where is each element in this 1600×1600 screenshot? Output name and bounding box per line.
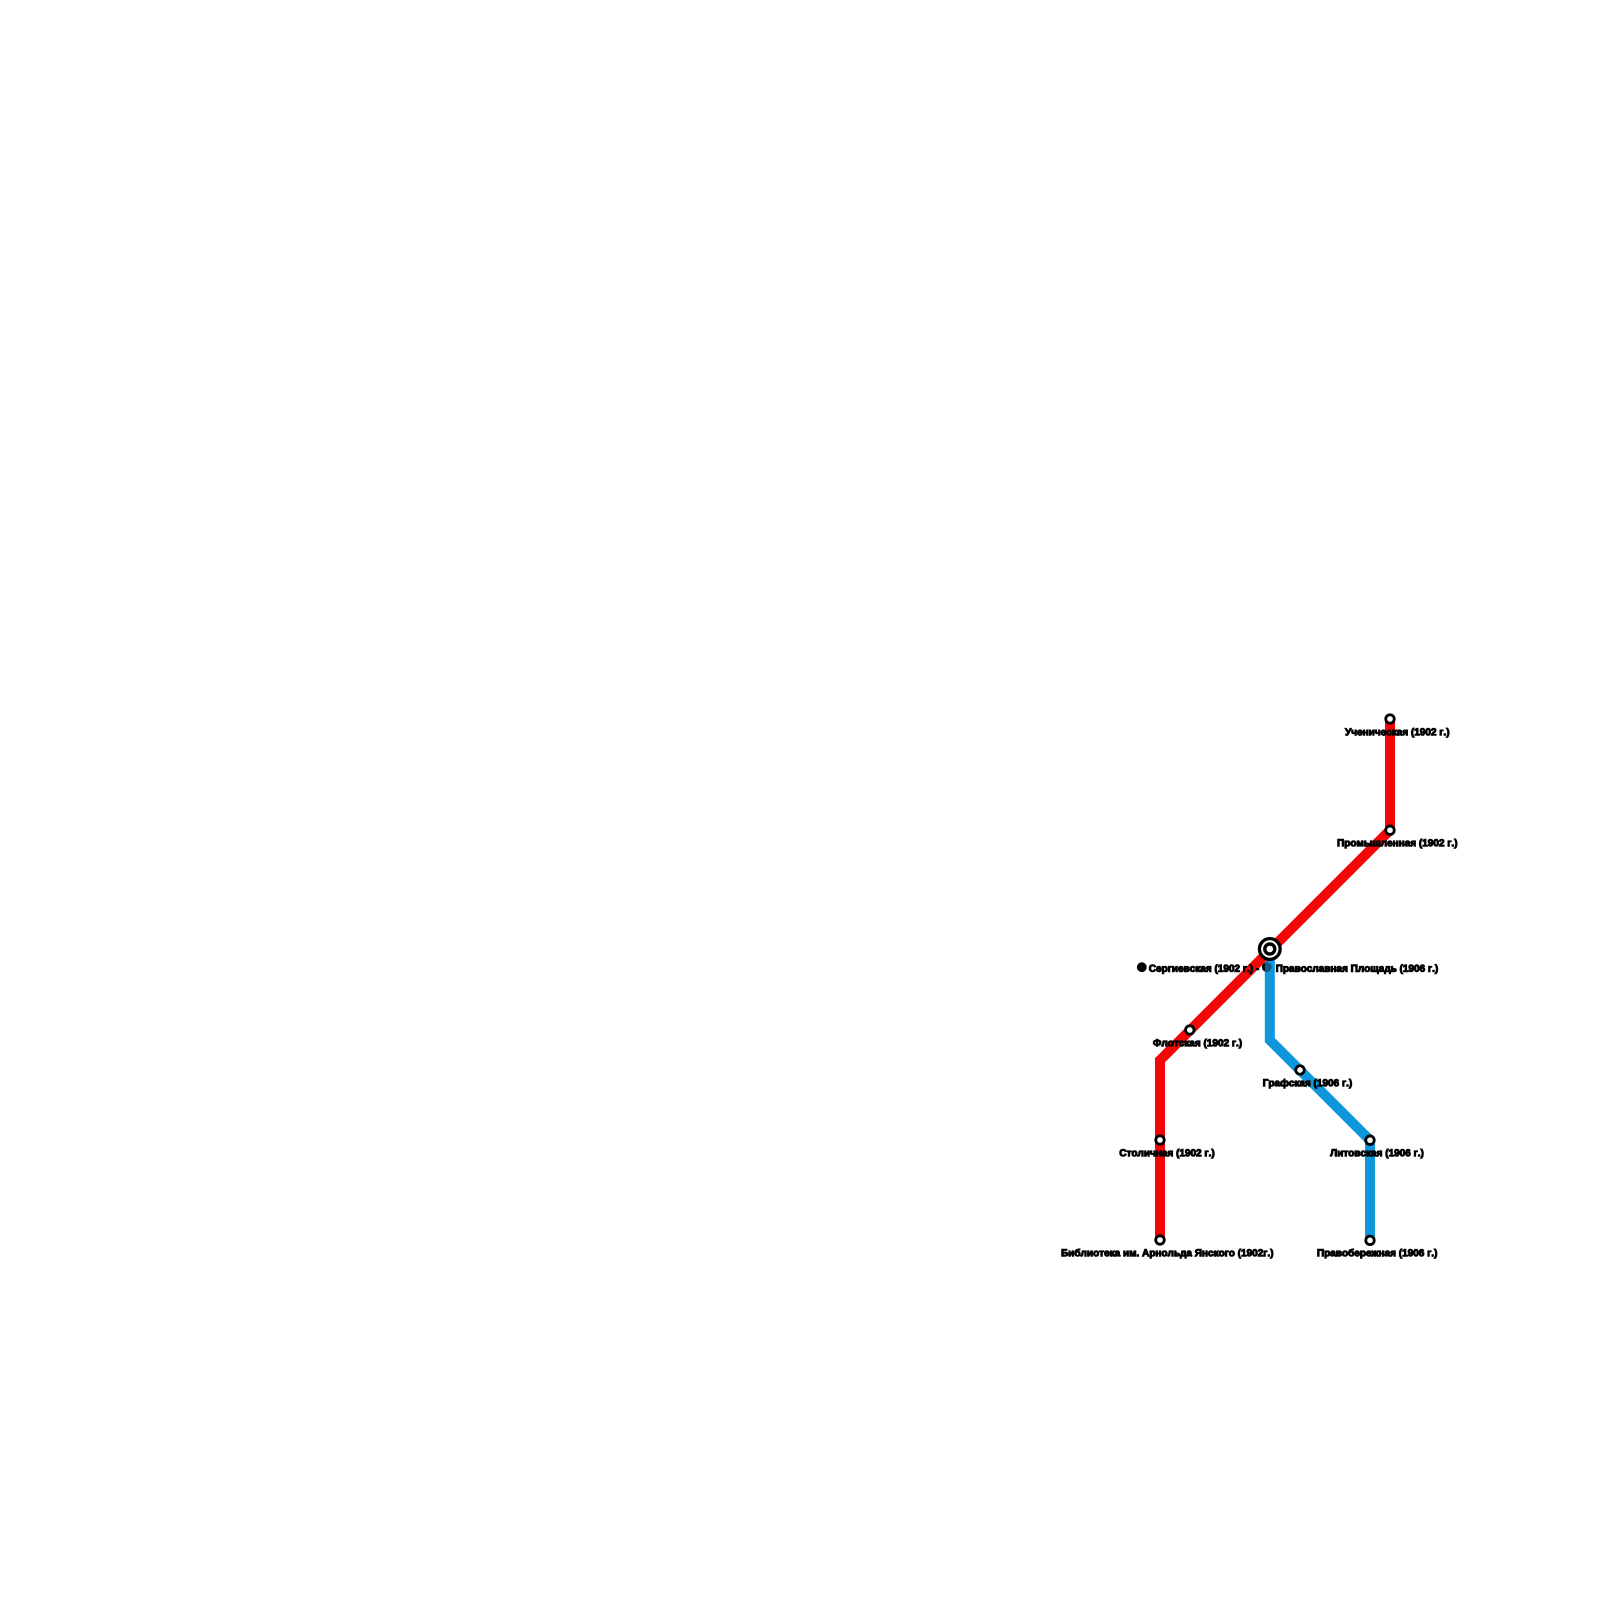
station Ученическая (1902) <box>1386 715 1395 724</box>
station Библиотека им. Арнольда Янского (1902) <box>1156 1236 1165 1245</box>
interchange label icon 2 (disc under blue line) <box>1262 963 1271 972</box>
station Промышленная (1902) <box>1386 826 1395 835</box>
red line 1902: Ученическая - Библиотека <box>1160 719 1390 1240</box>
interchange Сергиевская / Православная Площадь: outer ring <box>1259 939 1280 960</box>
station Столичная (1902) <box>1156 1136 1165 1145</box>
station Литовская (1906) <box>1366 1136 1375 1145</box>
interchange label icon (black disc) <box>1137 962 1147 972</box>
station Флотская (1902) <box>1186 1026 1195 1035</box>
label Правобережная (1906 г.) <box>1318 1249 1437 1258</box>
label Столичная (1902 г.) <box>1120 1149 1215 1158</box>
interchange inner ring <box>1265 944 1275 954</box>
label Графская (1906 г.) <box>1263 1079 1351 1088</box>
interchange label text Сергиевская (1902 г.) - <box>1149 965 1259 974</box>
station Графская (1906) <box>1296 1066 1305 1075</box>
blue line 1906: Православная Площадь - Правобережная <box>1270 949 1370 1240</box>
interchange label text Православная Площадь (1906 г.) <box>1276 965 1437 974</box>
station Правобережная (1906) <box>1366 1236 1375 1245</box>
label Промышленная (1902 г.) <box>1338 839 1457 848</box>
label Литовская (1906 г.) <box>1330 1149 1423 1158</box>
label Библиотека им. Арнольда Янского (1902г.) <box>1062 1249 1273 1258</box>
label Ученическая (1902 г.) <box>1345 728 1449 737</box>
label Флотская (1902 г.) <box>1153 1039 1241 1048</box>
